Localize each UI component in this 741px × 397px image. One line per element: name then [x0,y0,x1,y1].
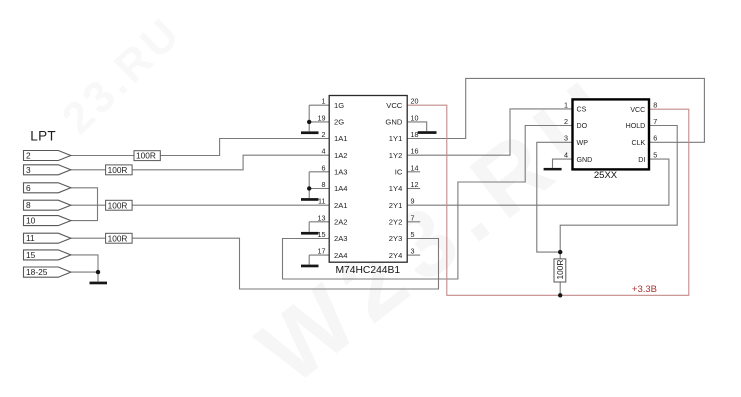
svg-text:WP: WP [577,139,589,147]
resistor R4 100R (LPT11) [106,233,133,243]
wire LPT18-25 to ground junction [71,272,98,281]
svg-text:100R: 100R [555,260,565,280]
wire 1Y4 pin12 stub [407,188,420,190]
wire 1Y1 to CLK (top run) [407,78,704,142]
svg-text:VCC: VCC [630,106,645,114]
svg-text:2: 2 [322,130,326,139]
resistor R5 100R pull-up (vertical) [554,259,566,282]
U1 right pin numbers [411,97,419,256]
LPT pin 8 connector tag [24,200,71,210]
LPT pin 15 connector tag [24,250,71,260]
wire LPT15 down to LPT18-25 [71,255,98,272]
svg-text:18: 18 [411,130,419,139]
wire LPT8 to R3 [71,204,106,206]
LPT pin 6 connector tag [24,183,71,193]
U1 right pin labels [385,101,402,260]
LPT pin 10 connector tag [24,216,71,226]
svg-text:10: 10 [26,216,36,226]
svg-text:100R: 100R [108,200,128,210]
wire 1G stub [309,104,329,106]
svg-text:CS: CS [577,106,587,114]
LPT pin 2 connector tag [24,151,71,161]
wire 2Y4 pin3 stub [407,254,420,256]
svg-text:4: 4 [564,151,568,160]
svg-text:2A1: 2A1 [334,201,348,210]
svg-text:IC: IC [395,168,403,177]
U2 left pin labels [577,106,593,164]
svg-text:7: 7 [411,213,415,222]
wire 1A4 to ground [308,189,310,199]
ground LPT18-25 [90,282,108,285]
svg-text:2A3: 2A3 [334,234,348,243]
svg-text:2Y2: 2Y2 [389,218,403,227]
wire 1A3 down to 1A4 [308,172,310,189]
svg-text:2Y4: 2Y4 [389,251,403,260]
wire 1A4 stub [309,188,329,190]
wire GND pin10 stub to ground [407,122,427,131]
wire LPT3 to R2 [71,169,106,171]
svg-text:100R: 100R [108,165,128,175]
ground 2A2 [301,232,319,235]
junction pull-up node WP/HOLD/R5 [558,250,562,254]
wire pull-up node to R5 top [559,252,561,259]
svg-text:3: 3 [411,247,415,256]
svg-text:5: 5 [653,151,657,160]
wire 25XX GND stub to ground [553,159,573,168]
LPT pin 11 connector tag [24,233,71,243]
svg-text:2A4: 2A4 [334,251,348,260]
wire WP to pull-up node [537,142,573,252]
svg-text:8: 8 [653,100,657,109]
svg-text:18-25: 18-25 [26,267,48,277]
wire 2A2 stub [309,221,329,223]
svg-text:1G: 1G [334,101,344,110]
wire LPT11 to R4 [71,237,106,239]
wire R2 to 1A2 (jog up at x243.1) [132,155,329,170]
svg-text:1: 1 [564,100,568,109]
U2 right pin labels [626,106,646,164]
wire 1A3 stub [309,171,329,173]
U2 left pin numbers [564,100,568,159]
U2 right pin numbers [653,100,657,159]
svg-text:1: 1 [322,97,326,106]
ground 2A4 [301,265,319,268]
svg-text:2: 2 [26,151,31,161]
svg-text:14: 14 [411,163,419,172]
LPT tag texts [26,151,48,278]
svg-text:15: 15 [26,250,36,260]
svg-text:10: 10 [411,113,419,122]
svg-text:1Y4: 1Y4 [389,184,403,193]
svg-text:7: 7 [653,117,657,126]
junction LPT15/18-25 [96,270,100,274]
wire R1 to 1A1 (jog up at x219.6) [160,139,329,156]
wire HOLD to pull-up node [560,126,677,253]
svg-text:+3.3B: +3.3B [632,284,657,295]
svg-text:4: 4 [322,147,326,156]
svg-text:M74HC244B1: M74HC244B1 [335,265,400,276]
wire 2A2 to ground [308,222,310,232]
svg-text:1A1: 1A1 [334,134,348,143]
svg-text:2: 2 [564,117,568,126]
svg-text:25XX: 25XX [594,170,618,181]
IC U1 M74HC244B1 body [329,96,407,276]
+3.3V red net: U1 VCC pin20, rail, R5 tap, U2 VCC pin8 [407,105,689,295]
svg-text:GND: GND [385,118,402,127]
svg-text:20: 20 [411,97,419,106]
junction R5 on +3.3V rail [558,293,562,297]
svg-text:1A4: 1A4 [334,184,348,193]
svg-text:9: 9 [411,197,415,206]
svg-text:1A2: 1A2 [334,151,348,160]
wire LPT6 down to LPT8 net [71,188,98,205]
svg-text:11: 11 [318,197,325,206]
svg-text:8: 8 [322,180,326,189]
junction 1G/2G [307,120,311,124]
ground U2 GND pin4 [544,168,562,171]
svg-text:6: 6 [653,134,657,143]
U1 left pin labels [334,101,348,260]
svg-text:2G: 2G [334,118,344,127]
svg-text:DI: DI [638,156,645,164]
svg-text:16: 16 [411,147,419,156]
svg-text:1Y1: 1Y1 [389,134,403,143]
svg-text:17: 17 [318,247,326,256]
svg-text:VCC: VCC [386,101,403,110]
ground U1 GND pin10 [418,131,437,134]
resistor R2 100R (LPT3) [106,165,133,175]
svg-text:1A3: 1A3 [334,168,348,177]
wire 2G to ground [308,122,310,131]
svg-text:CLK: CLK [631,139,645,147]
svg-text:15: 15 [318,230,326,239]
wire R4 to 2Y3 (down at x239.5, bottom run, up at x438.5) [132,238,438,289]
wire 2Y1 to DI [407,159,669,205]
LPT pin 18-25 connector tag [24,267,71,277]
svg-text:11: 11 [26,233,35,243]
svg-text:6: 6 [26,183,31,193]
resistor R3 100R (LPT8) [106,200,133,210]
svg-text:2Y1: 2Y1 [389,201,403,210]
svg-text:5: 5 [411,230,415,239]
junction 1A3/1A4 [307,186,311,190]
svg-text:19: 19 [318,113,326,122]
wire 1Y2 to CS [407,109,572,155]
wire DO to 2A3 (down, bottom run A, up) [283,126,573,280]
LPT pin 3 connector tag [24,165,71,175]
wire LPT2 to R1 [71,155,134,157]
wire 1G down to 2G [308,105,310,122]
svg-text:2A2: 2A2 [334,218,348,227]
ground 1A4 [301,198,319,201]
watermark [240,56,645,397]
wire 2A4 to ground [308,255,310,264]
U1 left pin numbers [318,97,326,256]
svg-text:1Y2: 1Y2 [389,151,403,160]
wire 2Y2 pin7 stub [407,221,420,223]
watermark small top-left [53,7,191,143]
wire 2A4 stub [309,254,329,256]
wire R5 bottom to +3.3V rail [559,282,561,295]
svg-text:6: 6 [322,163,326,172]
wire LPT10 up to LPT8 net [71,205,98,220]
IC U2 25XX body [573,99,650,181]
wire R3 to 2A1 [132,204,329,206]
svg-text:2Y3: 2Y3 [389,234,403,243]
svg-text:12: 12 [411,180,419,189]
svg-text:8: 8 [26,200,31,210]
wire IC pin14 stub [407,171,420,173]
svg-text:100R: 100R [136,151,156,161]
svg-text:3: 3 [26,165,31,175]
resistor R1 100R (LPT2) [134,151,160,161]
svg-text:GND: GND [577,156,593,164]
svg-text:100R: 100R [108,233,128,243]
svg-text:DO: DO [577,122,588,130]
svg-text:3: 3 [564,134,568,143]
svg-text:LPT: LPT [30,129,56,144]
svg-text:13: 13 [318,213,326,222]
ground 2G [301,131,319,134]
wire 2G stub [309,121,329,123]
svg-text:HOLD: HOLD [626,122,646,130]
